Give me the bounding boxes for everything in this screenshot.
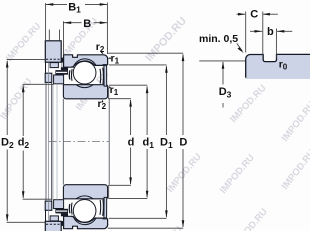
svg-text:D2: D2 — [1, 136, 14, 149]
svg-text:b: b — [267, 26, 274, 38]
svg-text:D3: D3 — [219, 86, 232, 99]
svg-text:IMPOD.RU: IMPOD.RU — [165, 151, 204, 195]
svg-text:IMPOD.RU: IMPOD.RU — [231, 206, 270, 231]
svg-text:B1: B1 — [68, 1, 81, 14]
svg-text:C: C — [250, 9, 258, 21]
svg-text:IMPOD.RU: IMPOD.RU — [0, 76, 35, 121]
svg-text:min. 0,5: min. 0,5 — [199, 33, 238, 45]
svg-text:D1: D1 — [160, 136, 173, 149]
svg-text:IMPOD.RU: IMPOD.RU — [280, 148, 310, 192]
svg-text:D: D — [179, 136, 187, 148]
svg-text:IMPOD.RU: IMPOD.RU — [146, 224, 185, 231]
svg-text:d1: d1 — [143, 136, 155, 149]
svg-text:IMPOD.RU: IMPOD.RU — [143, 15, 189, 64]
svg-text:B: B — [83, 18, 91, 30]
svg-text:IMPOD.RU: IMPOD.RU — [4, 21, 44, 64]
svg-text:IMPOD.RU: IMPOD.RU — [228, 83, 269, 125]
svg-text:r2: r2 — [98, 98, 107, 111]
svg-text:d: d — [128, 136, 135, 148]
svg-text:d2: d2 — [18, 136, 30, 149]
svg-text:IMPOD.RU: IMPOD.RU — [218, 152, 257, 196]
svg-text:r1: r1 — [111, 52, 120, 65]
svg-text:IMPOD.RU: IMPOD.RU — [280, 100, 310, 144]
svg-text:r2: r2 — [96, 41, 105, 54]
svg-text:r1: r1 — [110, 84, 119, 97]
